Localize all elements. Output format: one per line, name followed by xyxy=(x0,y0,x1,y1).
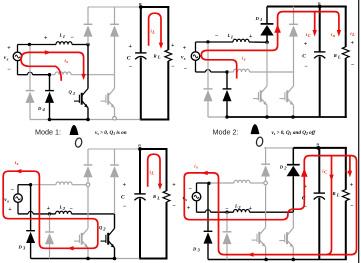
svg-text:s: s xyxy=(65,59,68,64)
svg-text:+: + xyxy=(129,44,133,50)
svg-text:−: − xyxy=(304,64,308,70)
svg-text:s: s xyxy=(195,165,198,170)
svg-text:D: D xyxy=(37,106,42,111)
svg-text:+: + xyxy=(351,41,355,47)
svg-text:R: R xyxy=(334,53,337,58)
svg-text:−: − xyxy=(351,62,355,68)
svg-text:s: s xyxy=(16,161,19,166)
svg-text:L: L xyxy=(351,32,355,37)
svg-text:1: 1 xyxy=(231,35,233,40)
svg-text:−: − xyxy=(184,67,188,73)
svg-text:L: L xyxy=(336,192,340,197)
svg-text:1: 1 xyxy=(260,17,262,22)
svg-text:R: R xyxy=(153,194,156,199)
svg-text:vs > 0, Q1 and Q2 off: vs > 0, Q1 and Q2 off xyxy=(272,130,317,136)
svg-text:+: + xyxy=(7,46,11,52)
svg-text:−: − xyxy=(71,35,75,41)
svg-text:D: D xyxy=(192,247,197,252)
svg-text:−: − xyxy=(173,203,177,209)
svg-text:n: n xyxy=(138,143,141,148)
svg-text:D: D xyxy=(255,16,260,21)
svg-text:n: n xyxy=(317,141,320,146)
svg-text:L: L xyxy=(337,54,341,59)
svg-text:−: − xyxy=(215,34,219,40)
svg-text:Mode 1:: Mode 1: xyxy=(35,127,61,136)
svg-text:L: L xyxy=(156,195,160,200)
svg-text:C: C xyxy=(127,55,131,61)
svg-text:s: s xyxy=(243,57,246,62)
svg-text:C: C xyxy=(121,195,125,201)
svg-text:s: s xyxy=(183,56,186,61)
svg-text:−: − xyxy=(225,206,229,212)
svg-text:+: + xyxy=(123,182,127,188)
svg-text:+: + xyxy=(172,182,176,188)
svg-text:L: L xyxy=(157,55,161,60)
svg-text:1: 1 xyxy=(63,34,65,39)
svg-text:+: + xyxy=(249,34,253,40)
svg-text:−: − xyxy=(350,204,354,210)
svg-text:n: n xyxy=(318,1,321,6)
svg-text:vs > 0, Q1 is on: vs > 0, Q1 is on xyxy=(95,130,127,136)
svg-text:+: + xyxy=(183,45,187,51)
svg-text:+: + xyxy=(171,43,175,49)
svg-text:+: + xyxy=(187,206,191,212)
svg-text:L: L xyxy=(150,171,154,176)
svg-text:s: s xyxy=(6,198,9,203)
svg-text:1: 1 xyxy=(73,91,75,96)
svg-text:+: + xyxy=(44,36,48,42)
svg-text:−: − xyxy=(11,188,15,194)
svg-text:Mode 2:: Mode 2: xyxy=(213,127,239,136)
svg-text:D: D xyxy=(18,245,23,250)
svg-text:L: L xyxy=(151,30,155,35)
svg-text:−: − xyxy=(70,206,74,212)
svg-text:R: R xyxy=(333,191,336,196)
svg-text:s: s xyxy=(6,57,9,62)
svg-text:−: − xyxy=(123,204,127,210)
svg-text:+: + xyxy=(47,206,51,212)
svg-text:R: R xyxy=(154,53,157,58)
svg-text:−: − xyxy=(189,186,193,192)
svg-text:−: − xyxy=(7,67,11,73)
svg-text:+: + xyxy=(304,42,308,48)
svg-text:C: C xyxy=(302,53,306,59)
svg-text:+: + xyxy=(249,206,253,212)
svg-text:D: D xyxy=(279,165,284,170)
svg-text:−: − xyxy=(129,65,133,71)
svg-text:+: + xyxy=(350,183,354,189)
svg-text:+: + xyxy=(8,207,12,213)
svg-text:−: − xyxy=(171,64,175,70)
svg-text:n: n xyxy=(139,1,142,6)
